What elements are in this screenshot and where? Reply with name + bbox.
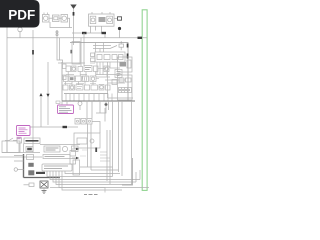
narrow box NB (72, 42, 80, 64)
arrowhead up (39, 93, 42, 96)
connector strip dark (24, 138, 40, 144)
cell lt2 (91, 58, 96, 62)
right port box (73, 160, 80, 175)
wire x59.5 (59, 38, 61, 60)
center-bottom assembly G2 (40, 145, 80, 176)
wire riser x100 x105 x108 (100, 101, 109, 122)
label bar (43, 155, 70, 159)
bottom-left assembly G1 (0, 138, 42, 157)
cell r1a (66, 66, 71, 72)
cell r2a (64, 76, 69, 82)
cell r1d (84, 66, 92, 72)
top line (40, 144, 80, 146)
cell r2c (76, 76, 82, 82)
cell r1c (78, 67, 83, 72)
verticals (7, 141, 24, 153)
cell r2d hatched (82, 76, 89, 82)
box with dashes (44, 146, 60, 152)
motor M1 (43, 13, 50, 23)
module U1 outer (70, 43, 128, 102)
switch S1 diagonal (110, 46, 117, 49)
pink note N1 (58, 105, 74, 114)
fuse F2 (119, 41, 124, 50)
left col cell (63, 64, 67, 69)
wire (59, 17, 61, 19)
arrow tick A2 (102, 32, 107, 34)
wire (49, 17, 53, 19)
right corner links (136, 170, 140, 182)
interior cells of U1 (63, 62, 126, 101)
wire verticals mid (88, 124, 92, 170)
box BL outer (2, 141, 20, 153)
wire (119, 30, 121, 38)
right sub module SB2 (108, 57, 134, 100)
bottom row pins (64, 93, 108, 95)
harness fan-out wires (47, 167, 149, 190)
PDF badge (0, 0, 40, 28)
arrow tick A1 (82, 32, 87, 34)
module U1 left edge (61, 62, 63, 101)
tiny top text squiggles (64, 63, 96, 83)
connector rings on x57 (56, 31, 58, 33)
lamp E1 below U1 (78, 102, 82, 111)
wire h63 (58, 62, 85, 64)
pin tick dark B2 (95, 148, 97, 153)
wire U2 drops (91, 26, 102, 33)
row3 cells (63, 85, 68, 90)
splice dot (118, 27, 121, 30)
wire risers below U1 (30, 97, 78, 127)
wire horizontal mid (72, 33, 105, 38)
box B2 mid (74, 133, 100, 148)
connector tick on vertical B (32, 50, 34, 55)
wire lower loop (50, 22, 70, 28)
wire from U2 right (114, 18, 118, 20)
motor M2 (61, 15, 68, 23)
wire drop D1 (80, 38, 82, 66)
dark bar (36, 172, 45, 174)
wire riser x107 x110 (107, 130, 110, 184)
inner verticals right (97, 62, 110, 77)
caption line (50, 188, 105, 193)
bottom dark edge (24, 177, 61, 179)
wire drop D2 (83, 33, 85, 66)
resistor R9 (24, 183, 35, 187)
stub box (56, 101, 60, 104)
motor M3 (62, 146, 67, 151)
fuse F1 (118, 17, 122, 20)
connector C9 below badge (18, 26, 22, 38)
wire fan-in stubs (100, 152, 110, 161)
wire x57 short (57, 30, 63, 63)
wire riser x87 x92 (87, 101, 92, 118)
cell r1b (72, 66, 77, 72)
small dark box (26, 147, 33, 152)
note N1 text (59, 107, 72, 112)
wire outputs w/ arrows (70, 148, 87, 164)
svg-text:PDF: PDF (8, 7, 35, 22)
pink caption dashes (17, 137, 22, 139)
cell r2e (90, 76, 96, 82)
inner h-links right (96, 68, 125, 83)
cell rc2 (112, 80, 117, 85)
cells right of trunk (27, 155, 35, 176)
wire riser x118 x122 x131 (119, 101, 132, 185)
wire main horizontal bus (7, 37, 147, 39)
inner verticals (66, 72, 96, 86)
pin tick P1 (127, 44, 129, 48)
wire left vertical (6, 28, 8, 153)
connector tick dark (71, 50, 73, 54)
cell r2b dark (69, 76, 75, 82)
wire pink links (62, 101, 67, 105)
gray right vertical (122, 158, 133, 185)
sub box SB1 (95, 52, 125, 62)
relay box (17, 138, 22, 143)
wire sw feed (93, 46, 111, 49)
wire top chain to node (68, 18, 73, 27)
cell lt1 (91, 53, 95, 57)
cell rc1 (115, 70, 122, 78)
wire riser x112 (112, 101, 114, 177)
ground (42, 191, 47, 194)
relay K1 (53, 15, 60, 22)
lamp E2 (14, 168, 17, 171)
arrow tick A3 on main bus (138, 37, 143, 39)
connector row CR1 (75, 119, 92, 125)
pink note N2 (17, 126, 31, 136)
caption text (84, 194, 98, 196)
arrowhead down x48 (46, 94, 49, 97)
inner cells row1 (97, 55, 123, 60)
wire stubs left of trunk (14, 156, 24, 170)
green highlight net (142, 10, 147, 191)
wire stubs into SB1 (96, 43, 104, 53)
bus line (2, 152, 40, 154)
wire from CR1 (92, 122, 100, 134)
wire riser x48 (47, 62, 49, 125)
small box (72, 146, 79, 152)
wire vertical B (32, 30, 34, 153)
module U1 bottom dark edge (62, 100, 135, 102)
splice dot S2 (105, 103, 108, 106)
mid links (75, 69, 107, 79)
arrow tick A4 (63, 126, 68, 128)
ic bar (42, 164, 72, 171)
pin tick P2 (127, 54, 129, 59)
antenna W1 (70, 5, 76, 46)
control unit U2 top box (89, 12, 115, 26)
cell r1e (94, 66, 99, 72)
battery G3 bottom (40, 181, 48, 194)
dark trunk T1 (23, 154, 25, 178)
switch S3 (9, 138, 13, 141)
